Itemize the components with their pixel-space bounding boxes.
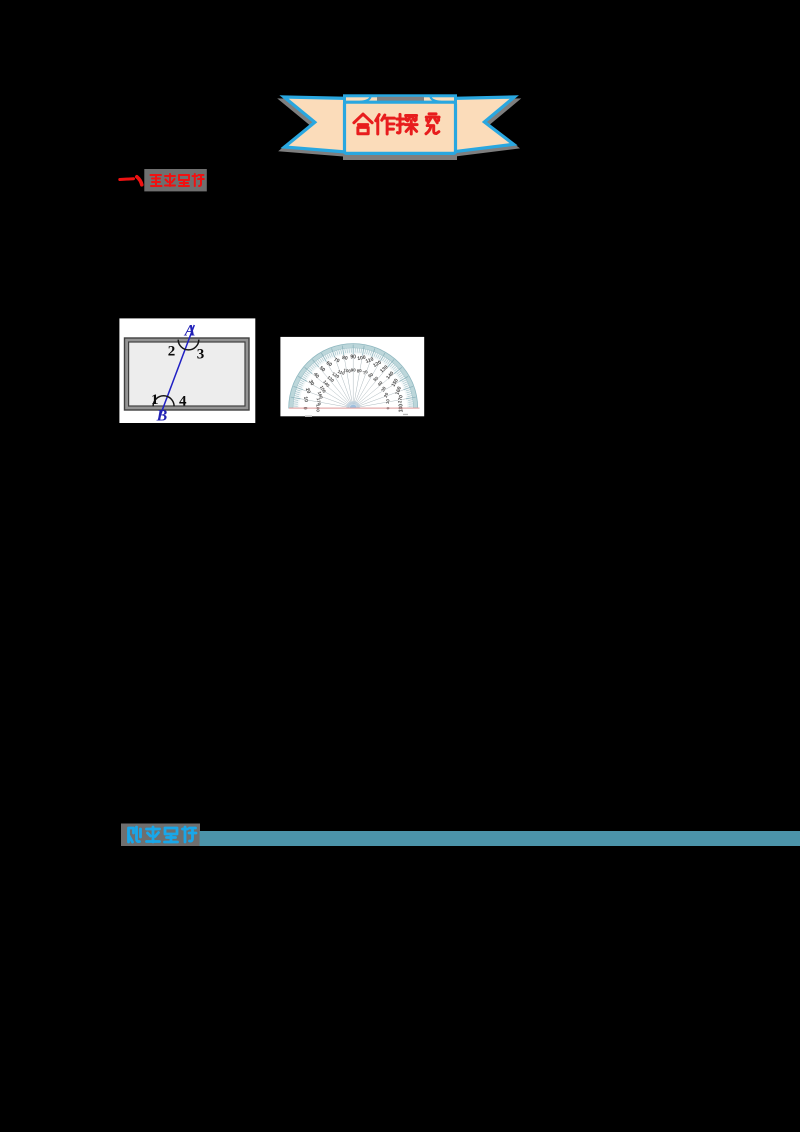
line AB (blue) [158,325,194,420]
label A [184,323,196,340]
paper rectangle (double border) [125,338,250,410]
ribbon top back strip [345,96,456,104]
svg-text:3: 3 [197,347,205,363]
ribbon banner shadow [282,100,518,159]
figure 1 white background [119,318,255,423]
angle label 3 [197,347,205,363]
angle label 2 [168,343,176,359]
label B [156,408,168,425]
angle arc at B [153,396,174,407]
svg-text:90: 90 [350,355,356,361]
angle label 4 [179,394,187,410]
ribbon left wing [284,97,352,153]
ribbon right wing [448,97,514,153]
ribbon central panel [345,102,456,153]
angle label 1 [151,392,159,408]
protractor white background [280,337,424,416]
svg-text:2: 2 [168,343,176,359]
svg-text:4: 4 [179,394,187,410]
teal horizontal rule [200,831,800,846]
究 [426,114,439,134]
探 [397,114,417,134]
合 [354,114,372,134]
ribbon panel curls [360,97,441,102]
svg-text:1: 1 [151,392,159,408]
angle arc at A [178,340,199,350]
svg-text:A: A [184,323,196,340]
作 [376,115,395,134]
protractor [289,344,420,417]
blue heading highlight box [121,824,200,847]
svg-text:B: B [156,408,168,425]
blue heading text (4 CJK glyph blobs) [129,827,197,842]
red heading highlight box [144,169,207,191]
banner text 合作探究 (drawn strokes) [354,114,439,134]
red section heading 一、 [120,177,142,185]
red heading text (4 CJK glyph blobs) [151,174,204,186]
